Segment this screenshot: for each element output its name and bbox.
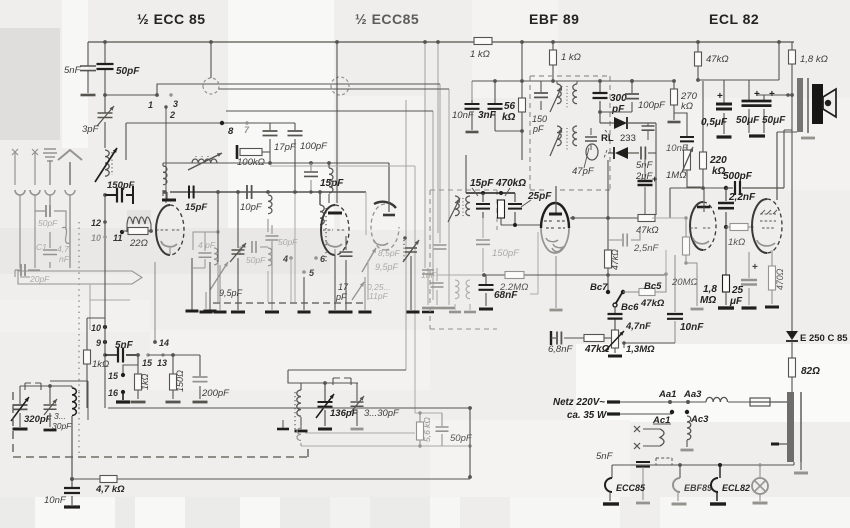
- capacitor 0,5uF electrolytic: [723, 80, 725, 134]
- resistor 1kOhm (g2 stopper): [726, 226, 730, 228]
- resistor 2,2MOhm (AVC): [505, 272, 524, 279]
- capacitor C1 4,7nF (gray): [49, 232, 51, 268]
- shield box gang 2: [301, 382, 358, 384]
- capacitor 5nF (heater): [636, 462, 650, 467]
- pin 16: [121, 390, 125, 394]
- pin 10 upper (gray): [103, 235, 106, 238]
- coil secondary (gray): [297, 428, 301, 440]
- wire pot to 10nF: [624, 342, 675, 344]
- svg-text:82Ω: 82Ω: [801, 366, 820, 377]
- ghost tube circle (dashed, triode a): [203, 78, 219, 94]
- resistor 1kOhm (osc grid): [84, 350, 91, 364]
- svg-text:470kΩ: 470kΩ: [495, 178, 526, 189]
- wire x218 down / x238 trimmer: [217, 192, 219, 262]
- mains terminals: [607, 400, 620, 403]
- wire B+ y80: [698, 79, 779, 81]
- winding Ac1: [634, 426, 640, 432]
- resistor 270kOhm: [673, 81, 675, 120]
- IF coil pair (detector primary): [455, 196, 459, 216]
- resistor 22 Ohm: [122, 230, 152, 232]
- svg-text:RL: RL: [601, 133, 614, 144]
- transformer secondary ground: [800, 462, 802, 470]
- svg-text:22Ω: 22Ω: [129, 238, 148, 249]
- capacitor 10nF (IF decoupling): [471, 100, 473, 130]
- pin 14: [154, 262, 156, 342]
- wire grid line y89: [218, 88, 449, 90]
- dashed lamp box: [656, 458, 672, 465]
- svg-text:320pF: 320pF: [24, 414, 52, 425]
- resistor 56kOhm: [521, 42, 523, 131]
- svg-text:pF: pF: [532, 124, 544, 134]
- capacitor 50pF (bold): [104, 42, 106, 95]
- loudspeaker: [812, 84, 823, 124]
- svg-text:ECL82: ECL82: [722, 483, 750, 493]
- svg-text:EBF 89: EBF 89: [529, 11, 579, 27]
- svg-text:9,5pF: 9,5pF: [375, 262, 399, 272]
- IF2 coil pair (ratio det transformer): [557, 126, 561, 146]
- svg-text:56: 56: [504, 101, 516, 112]
- svg-text:4,7 kΩ: 4,7 kΩ: [95, 484, 125, 495]
- pin 9: [103, 340, 107, 344]
- dash-dot gang indicator small: [25, 383, 41, 390]
- capacitor 150pF (gray, detector): [482, 218, 484, 272]
- svg-text:4: 4: [282, 254, 288, 264]
- wire grid line y84: [105, 84, 440, 95]
- capacitor 50uF (1): [748, 80, 750, 133]
- filament choke with shading: [127, 210, 151, 224]
- pin 7 (gray): [245, 121, 249, 125]
- capacitor (gray, x428): [427, 268, 429, 305]
- capacitor 2uF electrolytic: [655, 123, 657, 215]
- svg-text:pF: pF: [335, 292, 347, 302]
- svg-text:10pF: 10pF: [240, 202, 263, 213]
- svg-text:1,8 kΩ: 1,8 kΩ: [800, 54, 828, 65]
- svg-text:1MΩ: 1MΩ: [666, 170, 686, 181]
- coil bandfilter mid: [266, 190, 270, 194]
- svg-text:47kΩ: 47kΩ: [636, 225, 659, 236]
- wire Ac1 row: [620, 413, 672, 415]
- pin 6: [314, 256, 318, 260]
- wire x105 down: [104, 318, 106, 408]
- variable capacitor 136pF: [324, 383, 326, 426]
- capacitor 5nF (ratio det): [641, 147, 645, 160]
- wire EBF89 plate: [570, 217, 638, 219]
- ground bars converter row: [205, 292, 207, 310]
- capacitor 68nF: [485, 275, 487, 306]
- svg-text:ECC85: ECC85: [616, 483, 646, 493]
- wire pin15 link: [123, 355, 138, 373]
- svg-text:15pF: 15pF: [185, 202, 207, 213]
- wire IF routing bundle (gray): [406, 42, 449, 370]
- svg-text:150: 150: [532, 114, 547, 124]
- svg-text:50μF: 50μF: [762, 115, 786, 126]
- wire 20M ground: [696, 270, 698, 306]
- dipole antenna terminal: [58, 150, 82, 185]
- wire to gang 2: [288, 370, 406, 383]
- svg-text:C1: C1: [36, 242, 47, 252]
- node junction x105 y95: [103, 93, 107, 97]
- resistor 1kOhm (EBF89 screen feed, top): [474, 38, 492, 45]
- svg-text:5nF: 5nF: [596, 451, 614, 462]
- resistor 470kOhm (bold): [498, 200, 505, 218]
- capacitor 10nF (AF coupling): [674, 255, 676, 343]
- svg-text:kΩ: kΩ: [681, 101, 693, 112]
- pin 15 (on 5nF line): [146, 353, 149, 356]
- tube ECC85 triode 2 (mixer): [321, 205, 335, 255]
- capacitor 50pF (gray, osc pad): [266, 236, 279, 240]
- node osc bottom: [70, 477, 74, 481]
- resistor 47kOhm (Bc5 AVC): [623, 291, 639, 293]
- capacitor 10pF: [247, 185, 252, 199]
- wire osc tank top: [20, 385, 72, 387]
- svg-text:14: 14: [159, 338, 169, 348]
- variable capacitor 320pF: [19, 386, 21, 427]
- dial lamp: [759, 465, 761, 478]
- wire x666 up: [665, 250, 667, 274]
- capacitor 1nF (gray): [436, 268, 438, 305]
- resistor 1,8kOhm: [791, 42, 793, 95]
- svg-text:3...30pF: 3...30pF: [364, 408, 400, 419]
- svg-text:ca. 35 W: ca. 35 W: [567, 410, 607, 421]
- diode E250C85: [786, 331, 798, 340]
- capacitor 100pF mid (x311): [310, 163, 312, 192]
- svg-text:15: 15: [108, 371, 119, 381]
- coil FM oscillator with tuning arrow: [105, 150, 109, 176]
- wire AVC feed: [437, 274, 484, 276]
- svg-text:10: 10: [91, 323, 101, 333]
- capacitor 20pF (gray): [15, 269, 40, 271]
- heater EBF89: [679, 465, 681, 478]
- resistor 470 Ohm: [771, 250, 773, 304]
- switch Bc5: [621, 290, 625, 294]
- resistor 150 Ohm: [172, 355, 174, 399]
- svg-text:47kΩ: 47kΩ: [610, 249, 620, 270]
- svg-text:kΩ: kΩ: [502, 112, 516, 123]
- svg-text:1,8: 1,8: [703, 284, 717, 295]
- wire B+ top bus: [88, 41, 794, 43]
- mechanical tuning link (dotted): [78, 222, 80, 455]
- pin 4: [289, 256, 293, 260]
- wire ratio top: [610, 80, 674, 82]
- tube EBF89: [541, 203, 569, 228]
- node x105 y195: [103, 193, 107, 197]
- capacitor 6,8nF: [550, 331, 552, 345]
- potentiometer 1MOhm: [687, 170, 701, 187]
- svg-text:17pF: 17pF: [274, 142, 297, 153]
- mains transformer: [787, 392, 794, 462]
- capacitor 2,2nF: [725, 188, 727, 227]
- EBF89 cathode stems: [555, 256, 557, 308]
- wire osc section corner: [87, 318, 105, 408]
- wire osc AM line (gray): [270, 166, 415, 413]
- gray band-filter coils: [455, 280, 459, 299]
- pin 3: [169, 93, 172, 96]
- svg-text:½ ECC 85: ½ ECC 85: [137, 11, 206, 27]
- pin 8: [220, 121, 224, 125]
- ground antenna terminal: [43, 149, 57, 185]
- svg-text:μF: μF: [729, 296, 743, 307]
- svg-text:3: 3: [173, 99, 178, 109]
- svg-text:1,3MΩ: 1,3MΩ: [626, 344, 655, 355]
- trimmer 9,5pF with coil (gray): [214, 248, 218, 265]
- capacitor 100pF (ratio): [631, 81, 633, 112]
- svg-text:6,8nF: 6,8nF: [548, 344, 573, 355]
- transformer tap: [771, 443, 779, 446]
- svg-text:1: 1: [148, 100, 153, 110]
- resistor 4,7kOhm: [72, 478, 100, 480]
- svg-text:200pF: 200pF: [201, 388, 230, 399]
- svg-text:3...: 3...: [54, 411, 66, 421]
- wire y192 corner coil: [319, 192, 321, 205]
- wire detector to Bc7: [607, 160, 609, 292]
- svg-text:10: 10: [91, 233, 101, 243]
- wire y433 (gray): [305, 432, 415, 434]
- svg-text:50pF: 50pF: [38, 218, 58, 228]
- node triode cathode: [724, 225, 728, 229]
- wire pentode screen: [777, 130, 797, 188]
- trimmer 9,5pF gray label: [362, 248, 376, 272]
- svg-text:Bc5: Bc5: [644, 281, 662, 292]
- svg-text:150pF: 150pF: [492, 248, 520, 259]
- svg-text:3nF: 3nF: [478, 110, 497, 121]
- svg-text:15: 15: [142, 358, 153, 368]
- svg-text:150Ω: 150Ω: [175, 370, 185, 392]
- diode RL233 upper: [600, 122, 614, 124]
- output transformer: [797, 78, 803, 132]
- svg-text:47kΩ: 47kΩ: [706, 54, 729, 65]
- capacitor 15pF (ratio det): [482, 193, 484, 218]
- pin 11: [120, 230, 124, 234]
- wire 100pF lower (gray): [294, 194, 296, 302]
- svg-text:ECL 82: ECL 82: [709, 11, 759, 27]
- wire B+ down right: [791, 95, 793, 331]
- coil FM osc variable (arrow): [192, 159, 217, 163]
- potentiometer 1,3MOhm volume: [612, 330, 619, 348]
- svg-text:MΩ: MΩ: [700, 295, 716, 306]
- svg-text:4 pF: 4 pF: [198, 240, 216, 250]
- wire AVC line: [437, 274, 484, 276]
- svg-text:10nF: 10nF: [452, 110, 475, 121]
- svg-text:E 250 C 85: E 250 C 85: [800, 333, 848, 344]
- trimmer 0,25-11pF (gray): [352, 282, 364, 300]
- capacitor (gray, x440): [434, 245, 447, 249]
- capacitor 47pF: [590, 128, 592, 150]
- capacitor 150pF (IF1): [540, 81, 542, 110]
- resistor 82 Ohm: [789, 358, 796, 377]
- capacitor 10nF (osc bottom): [71, 479, 73, 505]
- svg-text:Netz 220V~: Netz 220V~: [553, 397, 605, 408]
- pin 5: [302, 270, 306, 274]
- svg-text:pF: pF: [611, 104, 625, 115]
- resistor 47kOhm (tone): [584, 335, 604, 342]
- pin 12: [103, 220, 107, 224]
- svg-text:5nF: 5nF: [64, 65, 82, 76]
- capacitor 150pF (osc, bold): [105, 186, 133, 204]
- capacitor 50pF (gray, converter): [252, 241, 256, 253]
- svg-text:nF: nF: [59, 254, 70, 264]
- capacitor 300pF (bold): [599, 81, 601, 123]
- trimmer 3...30pF (osc): [49, 386, 51, 427]
- tube ECC85 triode 1: [156, 205, 170, 255]
- pin 10 lower: [103, 325, 107, 329]
- trimmer FM osc (dotted core): [403, 240, 405, 262]
- pin 13: [161, 353, 164, 356]
- capacitor 17pF: [269, 123, 271, 163]
- svg-text:220: 220: [709, 155, 727, 166]
- capacitor 5nF (antenna decoupling): [87, 42, 89, 93]
- svg-text:470Ω: 470Ω: [775, 268, 785, 290]
- wire IF B+ y81: [472, 80, 530, 82]
- capacitor 4pF (gray): [193, 232, 218, 268]
- svg-text:233: 233: [620, 133, 636, 144]
- svg-text:Aa3: Aa3: [683, 389, 702, 400]
- svg-text:1kΩ: 1kΩ: [140, 373, 150, 390]
- capacitor 100pF (upper): [294, 123, 296, 190]
- wire det top: [466, 192, 515, 194]
- svg-text:8: 8: [228, 126, 234, 137]
- switch Bc6 lever: [616, 293, 622, 303]
- svg-text:16: 16: [108, 388, 119, 398]
- svg-text:2,2nF: 2,2nF: [728, 192, 756, 203]
- coil oscillator tank: [72, 388, 76, 415]
- wire bottom return: [108, 408, 470, 477]
- IF1 coil pair: [551, 79, 555, 83]
- svg-text:47kΩ: 47kΩ: [640, 298, 665, 309]
- svg-text:2: 2: [169, 110, 175, 120]
- svg-text:9,5pF: 9,5pF: [219, 288, 243, 298]
- resistor 5,6kOhm: [419, 413, 421, 446]
- wire heater bus: [612, 464, 794, 466]
- dashed AM-FM switch link: [213, 302, 365, 304]
- svg-text:17: 17: [338, 282, 349, 292]
- heater ECL82: [719, 465, 721, 478]
- coil antenna trimmer (gray): [62, 227, 70, 243]
- resistor 100kOhm with blocking: [236, 145, 239, 159]
- svg-text:+: +: [752, 262, 758, 273]
- dashed IF filter box (detector): [430, 190, 497, 329]
- svg-text:15pF: 15pF: [470, 178, 494, 189]
- wire grid y123: [126, 123, 295, 160]
- svg-text:1kΩ: 1kΩ: [728, 237, 745, 248]
- wire triode grid gray: [652, 217, 686, 219]
- resistor 1,8MOhm: [725, 227, 727, 275]
- coupling loop: [586, 144, 598, 160]
- svg-text:10nF: 10nF: [680, 322, 704, 333]
- capacitor 2,5nF (gray): [608, 230, 640, 240]
- resistor 1kOhm (vertical, pin15): [137, 355, 139, 399]
- svg-text:10nF: 10nF: [44, 495, 67, 506]
- capacitor 200pF: [199, 355, 201, 399]
- svg-text:11pF: 11pF: [369, 291, 389, 301]
- trimmer 3...30pF (AM osc): [356, 383, 358, 426]
- tube ECL82 triode: [690, 202, 703, 250]
- winding Ac3: [685, 410, 689, 414]
- svg-text:20MΩ: 20MΩ: [671, 277, 698, 288]
- pin 1: [155, 93, 159, 97]
- dash-dot gang indicator 2: [333, 378, 351, 385]
- svg-text:500pF: 500pF: [723, 171, 753, 182]
- resistor 220kOhm: [702, 81, 704, 188]
- svg-text:47pF: 47pF: [572, 166, 595, 177]
- wire grid y188: [670, 187, 726, 189]
- ferrite rod antenna (gray): [18, 271, 142, 284]
- svg-text:150pF: 150pF: [107, 180, 135, 191]
- svg-text:12: 12: [91, 218, 101, 228]
- svg-text:0,5μF: 0,5μF: [701, 117, 728, 128]
- pin 2: [164, 105, 167, 108]
- resistor 20MOhm: [685, 218, 687, 263]
- svg-text:100pF: 100pF: [638, 100, 666, 111]
- svg-text:8,5pF: 8,5pF: [378, 248, 401, 258]
- coil AM oscillator: [300, 383, 302, 390]
- ghost tube half ECC85 (gray): [371, 204, 385, 250]
- capacitor 50pF (antenna coupling, gray): [35, 211, 66, 230]
- svg-text:50pF: 50pF: [246, 255, 266, 265]
- capacitor ratio reservoir: [642, 126, 655, 130]
- wire det bottom: [501, 224, 541, 226]
- coil mixer grid (x329): [328, 163, 330, 168]
- svg-text:+: +: [717, 91, 723, 102]
- AM antenna input jacks: [12, 149, 18, 185]
- wire y446 (gray): [301, 445, 470, 447]
- capacitor 25uF (cathode): [748, 252, 750, 305]
- svg-text:50pF: 50pF: [450, 433, 473, 444]
- diode RL233 lower: [608, 152, 614, 154]
- dashed IF transformer box: [530, 76, 610, 190]
- svg-text:47kΩ: 47kΩ: [584, 344, 610, 355]
- cathode ground stems ECC85-1: [192, 258, 210, 310]
- svg-text:9: 9: [96, 338, 101, 348]
- capacitor 25pF: [514, 193, 516, 225]
- resistor 1kOhm (IF plate, vertical): [552, 42, 554, 81]
- svg-text:3pF: 3pF: [82, 124, 100, 135]
- wire y95 link: [757, 94, 792, 96]
- svg-text:1 kΩ: 1 kΩ: [561, 52, 581, 63]
- svg-text:30pF: 30pF: [52, 421, 72, 431]
- svg-text:+: +: [652, 174, 657, 184]
- svg-text:13: 13: [157, 358, 167, 368]
- svg-text:Ac3: Ac3: [690, 414, 709, 425]
- svg-text:50μF: 50μF: [736, 115, 760, 126]
- svg-text:4,7: 4,7: [57, 244, 69, 254]
- dashed tuning box: [13, 392, 308, 457]
- tube ECL82 pentode: [752, 199, 767, 253]
- cathode stem mixer: [334, 255, 336, 310]
- ghost tube circle (dashed, triode b): [331, 77, 349, 95]
- svg-text:25: 25: [731, 285, 744, 296]
- wire Aa1: [620, 401, 688, 403]
- heater ECC85: [611, 465, 613, 478]
- svg-text:Bc7: Bc7: [590, 282, 608, 293]
- svg-text:1nF: 1nF: [421, 270, 436, 280]
- capacitor 500pF: [726, 187, 733, 189]
- svg-text:68nF: 68nF: [494, 290, 518, 301]
- capacitor 50pF (AM osc): [441, 413, 443, 446]
- svg-text:5nF: 5nF: [115, 340, 134, 351]
- wire osc cathode down: [104, 195, 106, 318]
- svg-text:½ ECC85: ½ ECC85: [355, 11, 419, 27]
- wire IF1 top bus: [530, 80, 610, 82]
- svg-text:300: 300: [610, 93, 627, 104]
- svg-text:20pF: 20pF: [29, 274, 50, 284]
- capacitor 50uF (2): [763, 95, 765, 133]
- wire x438/472 gray verticals: [471, 81, 473, 100]
- resistor 47kOhm (screen, vertical): [607, 245, 609, 252]
- svg-text:Bc6: Bc6: [621, 302, 639, 313]
- svg-text:1kΩ: 1kΩ: [92, 359, 109, 370]
- coil x163 (antenna sec): [163, 166, 167, 185]
- wire y111 line: [226, 110, 433, 112]
